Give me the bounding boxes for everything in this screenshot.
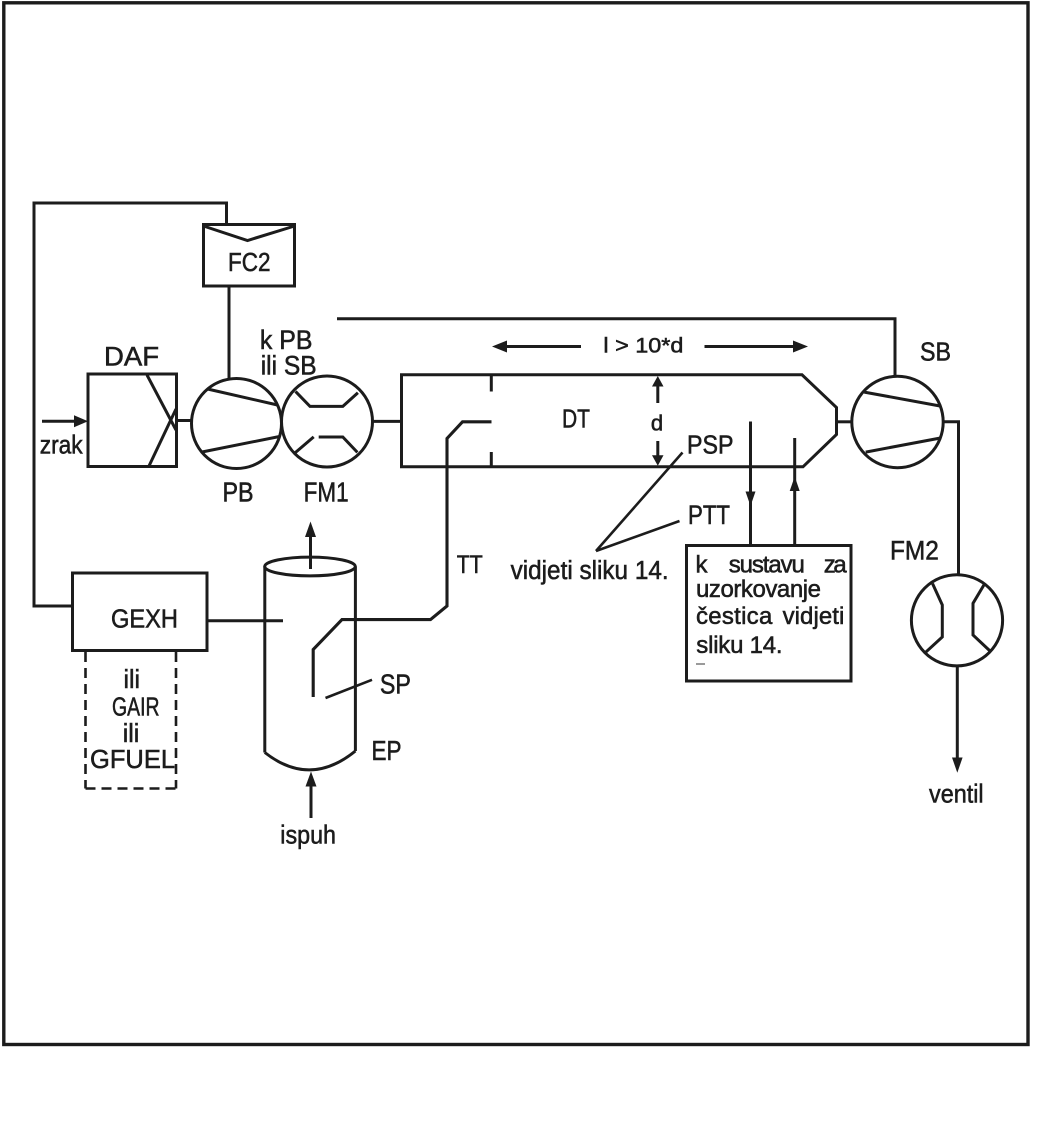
arrow ispuh inlet	[280, 772, 336, 850]
wire FM1 to DT	[373, 420, 402, 423]
transfer tube TT with probe bend	[313, 422, 491, 697]
svg-text:FC2: FC2	[228, 247, 271, 277]
svg-text:l > 10*d: l > 10*d	[603, 333, 683, 357]
svg-text:GFUEL: GFUEL	[90, 744, 175, 774]
label k PB ili SB	[260, 325, 317, 380]
arrow PSP sample down to box	[746, 422, 756, 545]
wire FC2 to PB	[228, 286, 231, 380]
blower SB	[852, 337, 951, 468]
svg-text:PTT: PTT	[688, 500, 730, 530]
svg-text:EP: EP	[372, 735, 402, 766]
arrow FM2 to ventil	[929, 666, 984, 809]
svg-text:zrak: zrak	[40, 430, 84, 460]
svg-text:TT: TT	[457, 551, 483, 579]
arrow out of EP top	[305, 522, 316, 570]
svg-text:DAF: DAF	[104, 341, 159, 371]
svg-text:čestica: čestica	[696, 603, 773, 630]
svg-text:ili SB: ili SB	[261, 350, 317, 380]
box k sustavu za uzorkovanje	[687, 546, 852, 682]
flow meter FM2	[890, 535, 1003, 666]
flow meter FM1	[282, 376, 373, 507]
probe SP pointer and label	[326, 669, 411, 700]
wire top line to SB	[337, 319, 895, 376]
arrow PTT return up from box	[790, 438, 800, 545]
svg-text:SP: SP	[380, 669, 411, 700]
svg-text:DT: DT	[562, 404, 590, 434]
dilution tunnel DT	[402, 375, 837, 467]
svg-text:FM1: FM1	[304, 476, 349, 507]
svg-text:za: za	[824, 551, 848, 578]
svg-text:ili: ili	[124, 664, 141, 694]
svg-text:SB: SB	[920, 337, 951, 367]
wire DAF to PB	[177, 419, 193, 422]
svg-text:vidjeti: vidjeti	[783, 603, 845, 630]
svg-text:ispuh: ispuh	[280, 819, 336, 849]
svg-text:d: d	[651, 411, 663, 436]
filter DAF	[88, 341, 177, 466]
exhaust pipe EP cylinder	[265, 557, 402, 770]
svg-text:sliku 14.: sliku 14.	[696, 632, 782, 659]
svg-text:FM2: FM2	[890, 535, 939, 565]
wire GEXH to FC2 feedback loop	[34, 203, 227, 606]
svg-text:PB: PB	[223, 476, 254, 507]
svg-text:vidjeti sliku 14.: vidjeti sliku 14.	[511, 557, 669, 585]
engine GEXH box	[73, 573, 208, 651]
dashed box GAIR GFUEL	[86, 652, 177, 789]
flow controller FC2	[204, 225, 295, 287]
label PTT with pointer	[596, 500, 730, 551]
svg-text:sustavu: sustavu	[729, 551, 805, 578]
blower PB	[192, 379, 282, 508]
svg-text:PSP: PSP	[687, 430, 734, 460]
svg-text:ventil: ventil	[929, 779, 984, 809]
svg-text:k: k	[696, 551, 709, 578]
svg-text:uzorkovanje: uzorkovanje	[696, 576, 821, 603]
dimension d	[651, 376, 664, 466]
label PSP with pointer	[596, 430, 734, 551]
dimension l > 10*d	[492, 333, 808, 357]
wire SB to FM2	[943, 422, 959, 575]
svg-text:GEXH: GEXH	[111, 604, 178, 634]
wire DT neck to SB	[837, 420, 852, 423]
wire GEXH to EP	[207, 619, 283, 622]
svg-text:GAIR: GAIR	[112, 692, 160, 722]
arrow zrak inlet	[40, 415, 88, 459]
